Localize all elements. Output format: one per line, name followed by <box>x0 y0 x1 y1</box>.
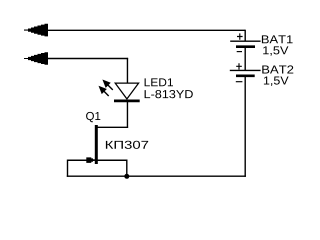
label LED1 <box>145 78 173 86</box>
LED emission arrow <box>102 80 112 90</box>
arrow (output lead 1) <box>24 24 48 37</box>
label BAT1 <box>262 35 293 43</box>
wire (gate to source rail) <box>67 160 69 177</box>
wire <box>126 102 128 128</box>
label 1,5V <box>264 77 289 86</box>
wire (drain lead) <box>96 126 128 128</box>
wire <box>67 175 246 177</box>
label Q1 <box>86 112 100 122</box>
wire <box>126 58 128 83</box>
wire (gate lead) <box>68 159 95 161</box>
battery BAT1 <box>230 33 260 51</box>
gate arrowhead <box>86 157 95 163</box>
label 1,5V <box>263 46 288 55</box>
label BAT2 <box>262 65 293 73</box>
arrow (output lead 2) <box>24 52 48 65</box>
label L-813YD <box>145 90 193 98</box>
wire <box>244 48 246 70</box>
label КП307 <box>106 141 148 149</box>
LED emission arrow <box>99 86 109 96</box>
wire <box>45 58 128 60</box>
wire <box>244 77 246 177</box>
LED LED1 <box>114 83 140 101</box>
battery BAT2 <box>230 63 261 81</box>
junction <box>124 174 129 179</box>
wire <box>244 30 246 41</box>
wire (source lead) <box>96 160 127 176</box>
wire <box>45 29 245 31</box>
transistor Q1 channel <box>95 125 98 164</box>
